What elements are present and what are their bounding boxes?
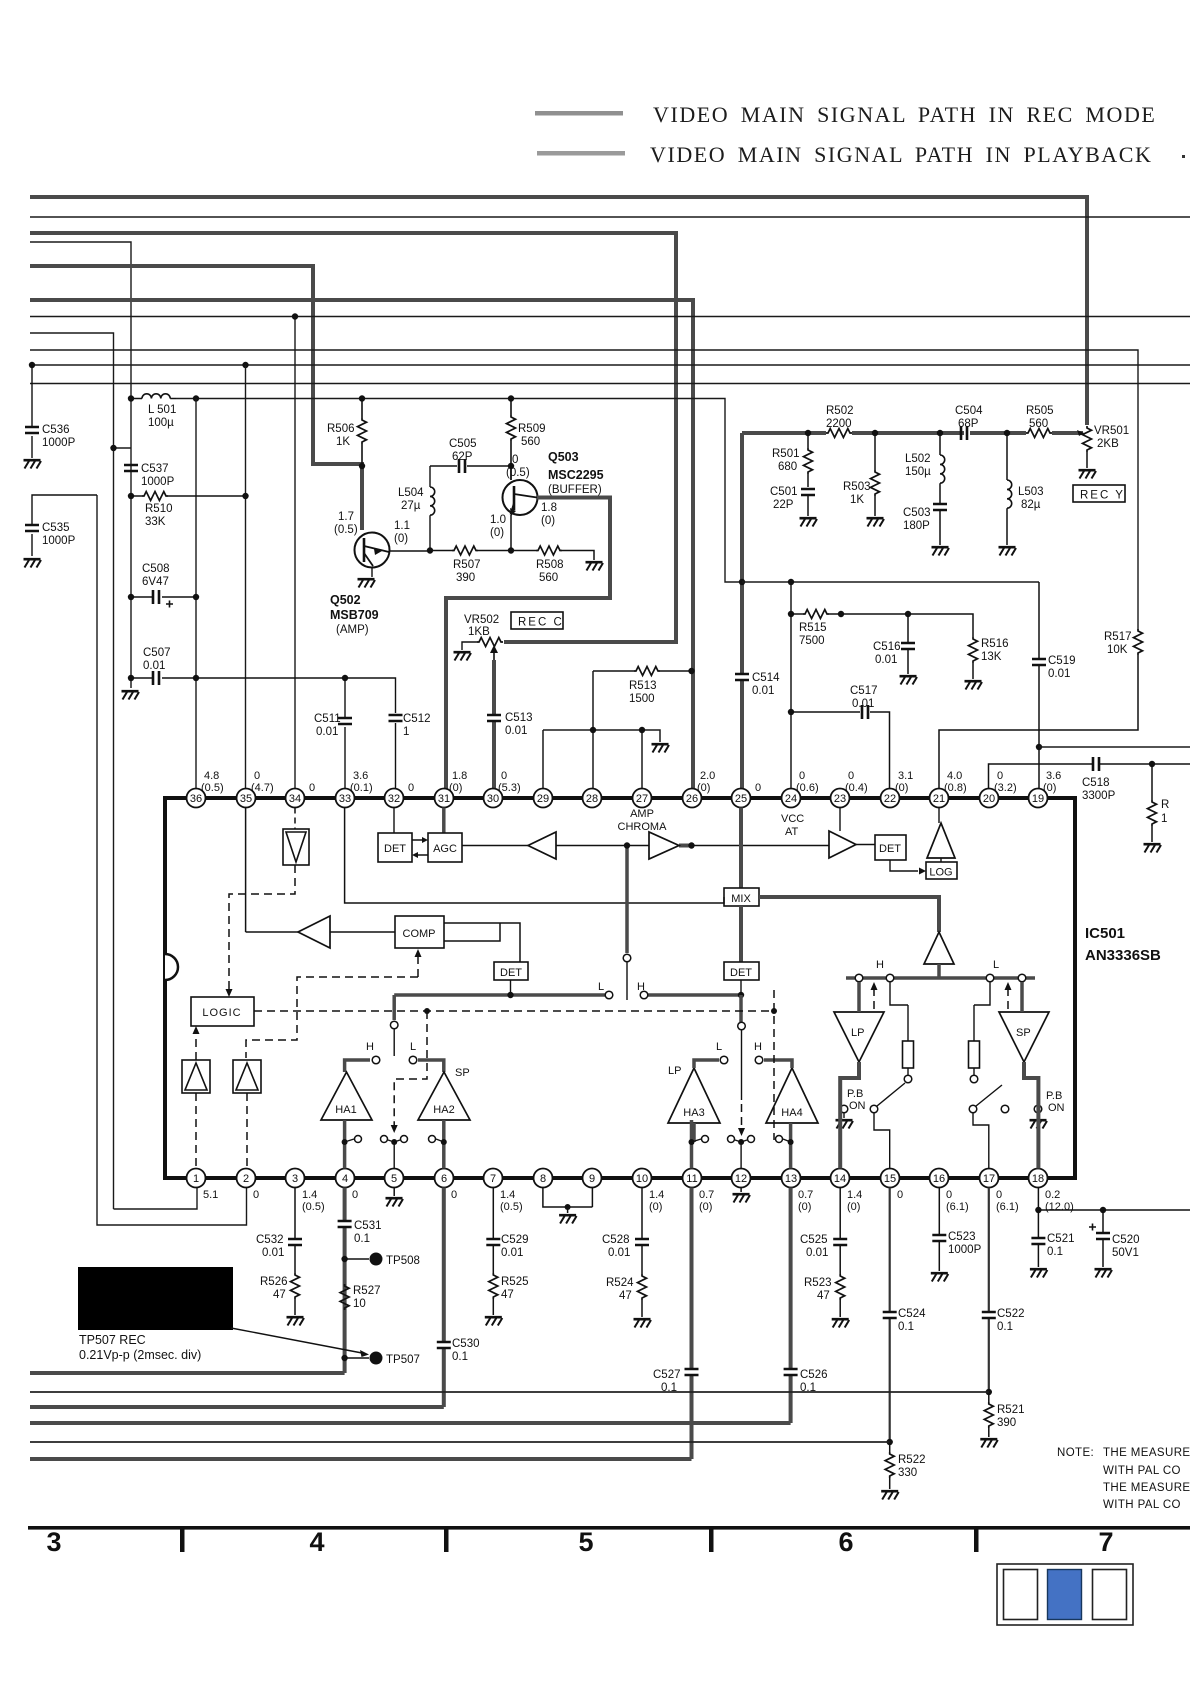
amplifier HA2 — [418, 1067, 470, 1120]
svg-text:L 501: L 501 — [148, 404, 176, 416]
svg-text:(0.5): (0.5) — [506, 467, 530, 479]
ground C536 — [24, 460, 42, 468]
svg-text:1.7: 1.7 — [338, 511, 354, 523]
svg-text:16: 16 — [933, 1173, 945, 1185]
svg-text:(BUFFER): (BUFFER) — [548, 484, 602, 496]
label pin 15 voltage — [897, 1189, 903, 1201]
wire pin23 stub — [839, 808, 841, 832]
wire x747 row to right edge — [1039, 746, 1190, 748]
svg-text:9: 9 — [589, 1173, 595, 1185]
switch PB left — [840, 1083, 905, 1169]
svg-text:0: 0 — [254, 770, 260, 782]
label pin 2 voltage — [253, 1189, 259, 1201]
wire Q502 collector row — [389, 466, 594, 560]
svg-text:0.7: 0.7 — [699, 1189, 714, 1201]
node DET3 bottom — [740, 980, 742, 995]
svg-text:C503: C503 — [903, 507, 931, 519]
svg-text:0.1: 0.1 — [898, 1321, 914, 1333]
wire pin18 row — [1038, 1188, 1190, 1211]
ruler scale line — [28, 1526, 1190, 1530]
svg-text:Q503: Q503 — [548, 450, 579, 464]
node R507 R508 junction — [508, 547, 514, 553]
ground C501 — [800, 518, 818, 526]
svg-text:0.1: 0.1 — [1047, 1246, 1063, 1258]
svg-text:22P: 22P — [773, 499, 794, 511]
pin 3 — [286, 1169, 305, 1188]
svg-text:1.4: 1.4 — [302, 1189, 317, 1201]
pin 4 — [336, 1169, 355, 1188]
svg-text:C536: C536 — [42, 424, 70, 436]
wire pin17 column — [988, 1188, 990, 1393]
svg-text:LP: LP — [851, 1027, 864, 1039]
svg-text:NOTE:: NOTE: — [1057, 1447, 1094, 1459]
svg-text:3.1: 3.1 — [898, 770, 913, 782]
node L501 right — [193, 395, 199, 401]
wire HL switch row thick — [394, 993, 741, 997]
svg-text:ON: ON — [849, 1100, 866, 1112]
svg-text:29: 29 — [537, 793, 549, 805]
resistor R505 — [1026, 405, 1054, 438]
svg-text:R508: R508 — [536, 559, 564, 571]
capacitor C504 — [955, 405, 983, 440]
pin 36 — [187, 789, 206, 808]
svg-text:1K: 1K — [850, 494, 864, 506]
wire REC Y row thick — [742, 431, 1083, 435]
svg-text:3.6: 3.6 — [1046, 770, 1061, 782]
svg-text:C537: C537 — [141, 463, 169, 475]
clamp box pin1 — [182, 1060, 210, 1093]
svg-text:3300P: 3300P — [1082, 790, 1116, 802]
svg-text:5.1: 5.1 — [203, 1189, 218, 1201]
svg-text:0: 0 — [352, 1189, 358, 1201]
label pin 3 voltage — [302, 1189, 325, 1213]
resistor R521 — [984, 1389, 1024, 1437]
ground PB right — [1030, 1120, 1048, 1128]
pin 30 — [484, 789, 503, 808]
pin 7 — [484, 1169, 503, 1188]
pin 22 — [881, 789, 900, 808]
node C519 bottom junction — [1036, 744, 1042, 750]
svg-text:C514: C514 — [752, 672, 780, 684]
wire HA1 top stub — [345, 1060, 370, 1072]
svg-text:1000P: 1000P — [42, 535, 76, 547]
capacitor C501 — [770, 486, 815, 516]
wire bus E thick to Q502 column — [30, 266, 362, 530]
svg-text:35: 35 — [240, 793, 252, 805]
comparator COMP box — [395, 916, 444, 948]
ground R503 — [867, 518, 885, 526]
capacitor C520 electrolytic — [1089, 1207, 1140, 1267]
pin 2 — [237, 1169, 256, 1188]
pin 28 — [583, 789, 602, 808]
ground R508 — [586, 562, 604, 570]
svg-text:0.01: 0.01 — [608, 1247, 630, 1259]
pin 19 — [1029, 789, 1048, 808]
detector DET box 3 — [724, 906, 759, 980]
resistor R522 — [885, 1439, 925, 1489]
svg-text:0.2: 0.2 — [1045, 1189, 1060, 1201]
test point TP507 — [341, 1352, 419, 1367]
svg-text:390: 390 — [997, 1417, 1016, 1429]
svg-text:C512: C512 — [403, 713, 431, 725]
label pin 30 voltage — [498, 770, 521, 794]
svg-text:4: 4 — [309, 1527, 324, 1557]
svg-text:0: 0 — [997, 770, 1003, 782]
ground PB left — [836, 1120, 854, 1128]
label pin 24 voltage — [796, 770, 819, 794]
wire bus B thin — [30, 216, 1190, 218]
switch contact HA4 H — [755, 1056, 763, 1064]
svg-text:0: 0 — [451, 1189, 457, 1201]
svg-text:14: 14 — [834, 1173, 846, 1185]
wire HA3 bottom thick — [692, 1120, 695, 1169]
wire SP out thick — [1024, 1062, 1038, 1169]
label pin 4 voltage — [352, 1189, 358, 1201]
node DET2 bottom — [510, 980, 512, 995]
svg-text:17: 17 — [983, 1173, 995, 1185]
svg-text:VIDEO MAIN SIGNAL PATH IN REC: VIDEO MAIN SIGNAL PATH IN REC MODE — [653, 102, 1156, 127]
svg-text:1: 1 — [1161, 813, 1167, 825]
label AMP CHROMA — [618, 808, 668, 833]
wire pin11 column thick — [690, 1188, 694, 1460]
svg-text:R509: R509 — [518, 423, 546, 435]
potentiometer VR501 — [1077, 425, 1129, 468]
wire pin24 column — [790, 582, 792, 789]
transistor Q502 — [355, 533, 390, 578]
ground C523 — [931, 1273, 949, 1281]
svg-text:31: 31 — [438, 793, 450, 805]
svg-text:13: 13 — [785, 1173, 797, 1185]
switch contact mid — [390, 1021, 398, 1029]
label Q503 — [490, 450, 604, 539]
svg-text:0.21Vp-p (2msec. div): 0.21Vp-p (2msec. div) — [79, 1348, 201, 1362]
svg-text:0.01: 0.01 — [875, 654, 897, 666]
svg-text:25: 25 — [735, 793, 747, 805]
pin 35 — [237, 789, 256, 808]
wire pin33 to MIX row — [345, 808, 724, 904]
transistor Q503 — [503, 480, 538, 516]
pin 25 — [732, 789, 751, 808]
capacitor C527 — [653, 1369, 699, 1394]
svg-text:(0): (0) — [1043, 782, 1056, 794]
switch PB right — [969, 1085, 1064, 1169]
svg-text:0.01: 0.01 — [852, 698, 874, 710]
svg-text:LP: LP — [668, 1065, 681, 1077]
wire jog x113 to x131 — [114, 447, 132, 449]
svg-text:1.4: 1.4 — [500, 1189, 515, 1201]
svg-text:100µ: 100µ — [148, 417, 174, 429]
capacitor C531 — [338, 1220, 382, 1245]
svg-text:1.4: 1.4 — [847, 1189, 862, 1201]
svg-text:27µ: 27µ — [401, 500, 421, 512]
svg-text:C535: C535 — [42, 522, 70, 534]
wire pin12 stub — [740, 1142, 742, 1169]
svg-text:R515: R515 — [799, 622, 827, 634]
label pin 19 voltage — [1043, 770, 1061, 794]
node chroma pin26 — [688, 842, 694, 848]
svg-text:TP507: TP507 — [386, 1354, 420, 1366]
svg-text:18: 18 — [1032, 1173, 1044, 1185]
capacitor C507 — [128, 647, 396, 789]
switch contact chroma — [623, 954, 631, 962]
wire pin4 column thick — [343, 1188, 347, 1374]
label pin 21 voltage — [944, 770, 967, 794]
pin 15 — [881, 1169, 900, 1188]
node pin24 top — [788, 579, 794, 585]
svg-text:C522: C522 — [997, 1308, 1025, 1320]
wire VR502 wiper to pin30 thick — [492, 660, 496, 789]
label pin 25 voltage — [755, 782, 761, 794]
node R509 top — [508, 395, 514, 401]
svg-text:(0): (0) — [895, 782, 908, 794]
svg-text:H: H — [754, 1041, 762, 1053]
svg-text:(6.1): (6.1) — [946, 1201, 969, 1213]
limiter box pin34 — [283, 808, 309, 866]
svg-text:32: 32 — [388, 793, 400, 805]
switch contact HA3 L — [720, 1056, 728, 1064]
AGC box — [428, 808, 462, 863]
svg-text:C508: C508 — [142, 563, 170, 575]
svg-text:68P: 68P — [958, 418, 979, 430]
svg-text:150µ: 150µ — [905, 466, 931, 478]
node pin28 tap — [590, 727, 596, 733]
label pin 16 voltage — [946, 1189, 969, 1213]
svg-text:R: R — [1161, 799, 1169, 811]
pin 21 — [930, 789, 949, 808]
svg-text:6V47: 6V47 — [142, 576, 169, 588]
svg-text:330: 330 — [898, 1467, 917, 1479]
wire bus I thin to R517 column — [30, 350, 1138, 630]
svg-text:6: 6 — [441, 1173, 447, 1185]
svg-text:62P: 62P — [452, 451, 473, 463]
amplifier comp left — [246, 808, 395, 949]
wire bottom bus 6 thick — [30, 1457, 692, 1461]
svg-text:2200: 2200 — [826, 418, 852, 430]
svg-text:390: 390 — [456, 572, 475, 584]
pin 31 — [435, 789, 454, 808]
svg-text:MIX: MIX — [731, 893, 751, 905]
svg-text:19: 19 — [1032, 793, 1044, 805]
svg-text:15: 15 — [884, 1173, 896, 1185]
wire bottom bus 5 — [30, 1441, 890, 1443]
svg-text:R517: R517 — [1104, 631, 1132, 643]
node pin25 x582 — [739, 579, 745, 585]
pin 9 — [583, 1169, 602, 1188]
pin 5 — [385, 1169, 404, 1188]
label pin 13 voltage — [798, 1189, 813, 1213]
wire pin6 column thick — [442, 1188, 446, 1408]
svg-text:C523: C523 — [948, 1231, 976, 1243]
svg-text:R506: R506 — [327, 423, 355, 435]
amplifier pin21 — [927, 808, 955, 863]
svg-text:AT: AT — [785, 826, 799, 838]
svg-text:47: 47 — [619, 1290, 632, 1302]
svg-text:0: 0 — [946, 1189, 952, 1201]
svg-text:34: 34 — [289, 793, 301, 805]
wire pin36 column from L501 — [195, 399, 197, 790]
wire LP out thick — [840, 1062, 859, 1169]
ground R518 — [1144, 844, 1162, 852]
svg-text:C513: C513 — [505, 712, 533, 724]
switch contacts LP SP row — [855, 959, 1026, 982]
svg-text:C529: C529 — [501, 1234, 529, 1246]
capacitor C522 — [982, 1308, 1025, 1333]
svg-text:L: L — [716, 1041, 722, 1053]
ruler tick 2 — [444, 1529, 449, 1552]
capacitor C535 — [25, 495, 97, 556]
pin 29 — [534, 789, 553, 808]
pin 26 — [683, 789, 702, 808]
pin 16 — [930, 1169, 949, 1188]
svg-text:C526: C526 — [800, 1369, 828, 1381]
pin 11 — [683, 1169, 702, 1188]
wire pin15 column — [889, 1188, 891, 1443]
wire bus C thick to Q503 column — [30, 233, 676, 642]
svg-text:R522: R522 — [898, 1454, 926, 1466]
node pin18 — [1035, 1207, 1041, 1213]
node pin34 column tap — [292, 313, 298, 319]
svg-text:THE MEASUREM: THE MEASUREM — [1103, 1447, 1190, 1459]
svg-text:(0.5): (0.5) — [500, 1201, 523, 1213]
switch row HA3 HA4 — [689, 1136, 794, 1146]
svg-text:28: 28 — [586, 793, 598, 805]
node R506 top — [359, 395, 365, 401]
svg-text:C532: C532 — [256, 1234, 284, 1246]
svg-text:7: 7 — [490, 1173, 496, 1185]
mixer MIX box — [724, 808, 759, 907]
capacitor C518 — [989, 757, 1190, 802]
svg-text:(0): (0) — [649, 1201, 662, 1213]
svg-text:SP: SP — [1016, 1027, 1031, 1039]
svg-text:0: 0 — [848, 770, 854, 782]
dashed logic control lines — [196, 865, 1008, 1169]
ground Q502 — [358, 579, 376, 587]
label pin 6 voltage — [451, 1189, 457, 1201]
ruler tick 1 — [180, 1529, 185, 1552]
note text — [1057, 1447, 1190, 1511]
wire bus J thin — [30, 364, 1190, 366]
svg-text:AN3336SB: AN3336SB — [1085, 947, 1161, 964]
label Q502 — [330, 511, 410, 636]
potentiometer VR502 — [462, 614, 503, 668]
wire HA2 bottom thick — [442, 1120, 446, 1169]
resistor R513 — [593, 667, 695, 706]
svg-text:L504: L504 — [398, 487, 424, 499]
svg-text:180P: 180P — [903, 520, 930, 532]
label pin 23 voltage — [845, 770, 868, 794]
svg-text:R525: R525 — [501, 1276, 529, 1288]
ground VR501 — [1079, 470, 1097, 478]
svg-text:8: 8 — [540, 1173, 546, 1185]
svg-text:(4.7): (4.7) — [251, 782, 274, 794]
resistor R502 — [826, 405, 854, 438]
svg-text:LOGIC: LOGIC — [202, 1007, 241, 1019]
svg-text:21: 21 — [933, 793, 945, 805]
label pin 14 voltage — [847, 1189, 862, 1213]
wire bottom bus 2 — [30, 1391, 989, 1393]
wire pin25 column thick — [740, 433, 744, 789]
svg-text:(5.3): (5.3) — [498, 782, 521, 794]
wire HA4 top stub — [764, 1060, 792, 1068]
svg-text:(0): (0) — [449, 782, 462, 794]
amplifier HA3 — [668, 1065, 720, 1123]
svg-text:36: 36 — [190, 793, 202, 805]
resistor R516 — [969, 637, 1009, 679]
capacitor C537 — [124, 463, 175, 488]
svg-text:2.0: 2.0 — [700, 770, 715, 782]
node bracket — [565, 1204, 571, 1210]
wire HA4 bottom thick — [789, 1123, 793, 1169]
svg-text:P.B: P.B — [847, 1088, 863, 1100]
svg-text:C528: C528 — [602, 1234, 630, 1246]
wire pin2 loop column — [97, 495, 247, 1225]
label pin 1 voltage — [203, 1189, 218, 1201]
svg-text:R513: R513 — [629, 680, 657, 692]
svg-text:0: 0 — [408, 782, 414, 794]
wire bus H thin to x113 column — [30, 333, 114, 1209]
svg-text:82µ: 82µ — [1021, 499, 1041, 511]
svg-text:(0.4): (0.4) — [845, 782, 868, 794]
svg-text:1000P: 1000P — [948, 1244, 982, 1256]
svg-text:23: 23 — [834, 793, 846, 805]
svg-text:3: 3 — [292, 1173, 298, 1185]
svg-text:R510: R510 — [145, 503, 173, 515]
svg-text:1.4: 1.4 — [649, 1189, 664, 1201]
svg-text:HA4: HA4 — [781, 1107, 802, 1119]
pin 10 — [633, 1169, 652, 1188]
svg-text:4: 4 — [342, 1173, 348, 1185]
svg-text:(0): (0) — [699, 1201, 712, 1213]
svg-text:R527: R527 — [353, 1285, 381, 1297]
legend REC mode sample line — [535, 111, 623, 116]
ground C520 — [1095, 1269, 1113, 1277]
pin 12 — [732, 1169, 751, 1188]
capacitor C532 resistor R526 pin3 — [256, 1188, 302, 1316]
svg-text:2: 2 — [243, 1173, 249, 1185]
svg-text:(0.1): (0.1) — [350, 782, 373, 794]
pin 8 — [534, 1169, 553, 1188]
pin 18 — [1029, 1169, 1048, 1188]
svg-text:47: 47 — [501, 1289, 514, 1301]
svg-text:DET: DET — [500, 967, 522, 979]
svg-text:VR501: VR501 — [1094, 425, 1129, 437]
wire Q503 collector thick loop — [446, 498, 610, 790]
svg-text:R524: R524 — [606, 1277, 634, 1289]
node R515 left — [788, 611, 794, 617]
svg-text:C531: C531 — [354, 1220, 382, 1232]
inductor L502 — [905, 430, 945, 503]
svg-text:AMP: AMP — [630, 808, 654, 820]
switch contact H — [640, 991, 648, 999]
svg-text:1.8: 1.8 — [452, 770, 467, 782]
wire bus D thin to x131 column — [30, 242, 131, 678]
svg-text:3.6: 3.6 — [353, 770, 368, 782]
svg-text:C501: C501 — [770, 486, 798, 498]
svg-text:IC501: IC501 — [1085, 925, 1125, 942]
amplifier luma — [829, 831, 856, 858]
arrowheads control — [193, 949, 1012, 1136]
svg-text:10: 10 — [353, 1298, 366, 1310]
svg-text:VCC: VCC — [781, 813, 804, 825]
svg-text:1000P: 1000P — [42, 437, 76, 449]
wire chroma row — [462, 845, 875, 846]
svg-text:(3.2): (3.2) — [994, 782, 1017, 794]
node L501 left — [128, 395, 134, 401]
svg-text:5: 5 — [391, 1173, 397, 1185]
svg-text:4.8: 4.8 — [204, 770, 219, 782]
svg-text:MSB709: MSB709 — [330, 608, 379, 622]
inductor L503 — [1004, 430, 1044, 545]
